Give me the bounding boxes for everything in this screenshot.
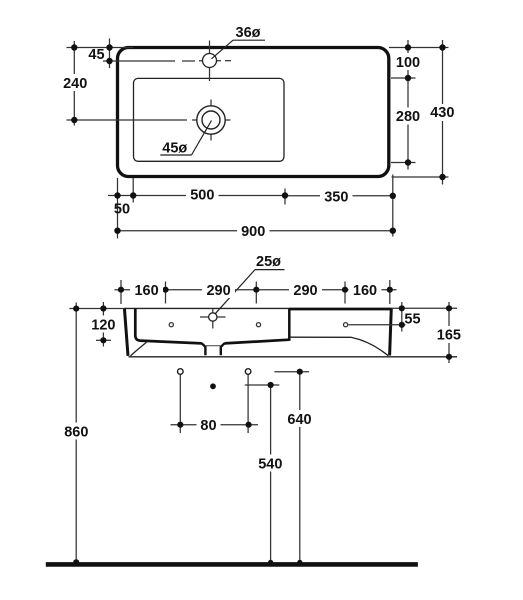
label 640 [284, 410, 317, 427]
svg-text:860: 860 [64, 425, 88, 441]
svg-text:540: 540 [258, 457, 282, 473]
drain trap right wall [221, 343, 225, 355]
drain inner top edge [206, 345, 221, 347]
label 160 left [130, 282, 163, 299]
overflow dot [210, 383, 216, 389]
drain hole 45ø (plan) [197, 106, 225, 134]
ext line top surface right [392, 307, 458, 309]
label 240 [62, 74, 89, 91]
left bottom thin curve [131, 342, 147, 356]
top edge thick part (shelf) [290, 308, 392, 311]
faucet hole 25ø (elevation) crosshair [200, 309, 226, 329]
svg-text:640: 640 [287, 412, 311, 428]
dim 430 vertical line [442, 40, 444, 185]
base line [129, 356, 458, 358]
ext line top surface left [69, 308, 125, 310]
dim 640 vertical [299, 372, 301, 563]
dim 80 line [171, 424, 259, 426]
bowl/shelf divider vertical [288, 309, 291, 341]
faucet hole 36ø (plan) [203, 54, 217, 68]
basin inner bowl edge (plan) [134, 78, 285, 161]
label 36ø [212, 25, 266, 59]
svg-text:50: 50 [114, 202, 130, 218]
svg-text:55: 55 [404, 312, 420, 328]
label 25ø [215, 254, 285, 314]
tick at x=285 [284, 189, 286, 205]
label 430 [429, 104, 456, 121]
dim 165 vertical [448, 302, 450, 363]
svg-text:80: 80 [200, 418, 216, 434]
dim 120 vertical [102, 302, 104, 347]
elevation dimension lines [69, 280, 457, 563]
mounting hole right [245, 369, 251, 375]
svg-text:280: 280 [396, 109, 420, 125]
svg-text:160: 160 [353, 283, 377, 299]
tick at 120 bottom [96, 339, 111, 341]
extension line y=78 right [391, 77, 416, 79]
dim 50/500/350 line [108, 195, 285, 197]
elevation outline [124, 308, 457, 357]
punch hole right 740 [344, 323, 348, 327]
label 80 [197, 417, 221, 434]
faucet hole centerlines [103, 41, 231, 82]
label 500 [186, 187, 219, 204]
label 860 [60, 423, 94, 440]
dim 240 vertical line [73, 41, 75, 126]
drain hole centerlines [67, 100, 231, 141]
label 160 right [349, 282, 382, 299]
label 540 [254, 455, 287, 472]
label 280 [395, 108, 422, 125]
svg-text:240: 240 [63, 76, 87, 92]
ext line y=324.9 [349, 324, 406, 326]
label 165 [435, 326, 463, 343]
dim 100/280 vertical line [407, 40, 409, 170]
floor line [46, 562, 418, 567]
dim 55 vertical [401, 302, 403, 332]
dimension lines group (top view) [67, 39, 449, 239]
label 45ø [160, 121, 211, 157]
ticks on dim row [120, 280, 122, 304]
dim 900 line [118, 230, 393, 232]
extension vertical x=392.8 [392, 175, 394, 237]
svg-text:160: 160 [134, 283, 158, 299]
svg-text:900: 900 [241, 224, 265, 240]
dimension dots (top view) [71, 44, 446, 234]
svg-text:350: 350 [324, 190, 348, 206]
label 290 left [202, 282, 235, 299]
dim 45 vertical line [109, 39, 111, 69]
svg-text:430: 430 [430, 105, 454, 121]
extension line y=162.5 right [391, 162, 416, 164]
svg-text:165: 165 [437, 328, 461, 344]
svg-text:45: 45 [88, 47, 104, 63]
svg-text:36ø: 36ø [236, 25, 261, 41]
mounting hole left [178, 369, 184, 375]
shelf underside thin line + curve [290, 337, 388, 356]
svg-text:45ø: 45ø [162, 140, 187, 156]
svg-text:25ø: 25ø [256, 254, 281, 270]
dim row 160/290/290/160 [115, 289, 397, 291]
top edge thin part [125, 307, 291, 309]
dimension texts (top view) [62, 47, 456, 240]
left outer edge [124, 308, 128, 356]
dim 860 vertical [75, 303, 77, 563]
dim 540 vertical [270, 385, 272, 562]
drain trap left wall [202, 343, 206, 355]
label 290 right [289, 282, 322, 299]
dim 540 h-line [245, 384, 279, 386]
elevation dimension texts [60, 282, 464, 473]
faucet hole 25ø (elevation) [209, 313, 217, 321]
bowl bottom right of drain [224, 340, 289, 344]
punch hole left 160 [169, 323, 173, 327]
svg-text:290: 290 [206, 283, 230, 299]
mounting hole verticals [179, 375, 181, 434]
extension vertical x=117.5 below [117, 178, 119, 239]
right outer edge [390, 308, 392, 356]
svg-text:290: 290 [293, 283, 317, 299]
label 350 [320, 188, 353, 205]
extension vertical x=133.2 below [132, 178, 134, 203]
elevation dimension dots [73, 287, 452, 566]
svg-text:120: 120 [91, 318, 115, 334]
left inner wall and bowl bottom [135, 309, 202, 344]
extension line top edge left [67, 47, 134, 49]
svg-text:100: 100 [396, 55, 420, 71]
svg-text:500: 500 [190, 188, 214, 204]
extension line top edge right [389, 47, 449, 49]
basin outer rim (plan) [118, 48, 389, 177]
label 120 [90, 316, 117, 333]
dim 640 h-line [274, 371, 309, 373]
extension line bottom right corner [392, 176, 449, 178]
label 100 [395, 53, 422, 70]
label 900 [237, 222, 270, 239]
punch hole middle 450 [256, 323, 260, 327]
